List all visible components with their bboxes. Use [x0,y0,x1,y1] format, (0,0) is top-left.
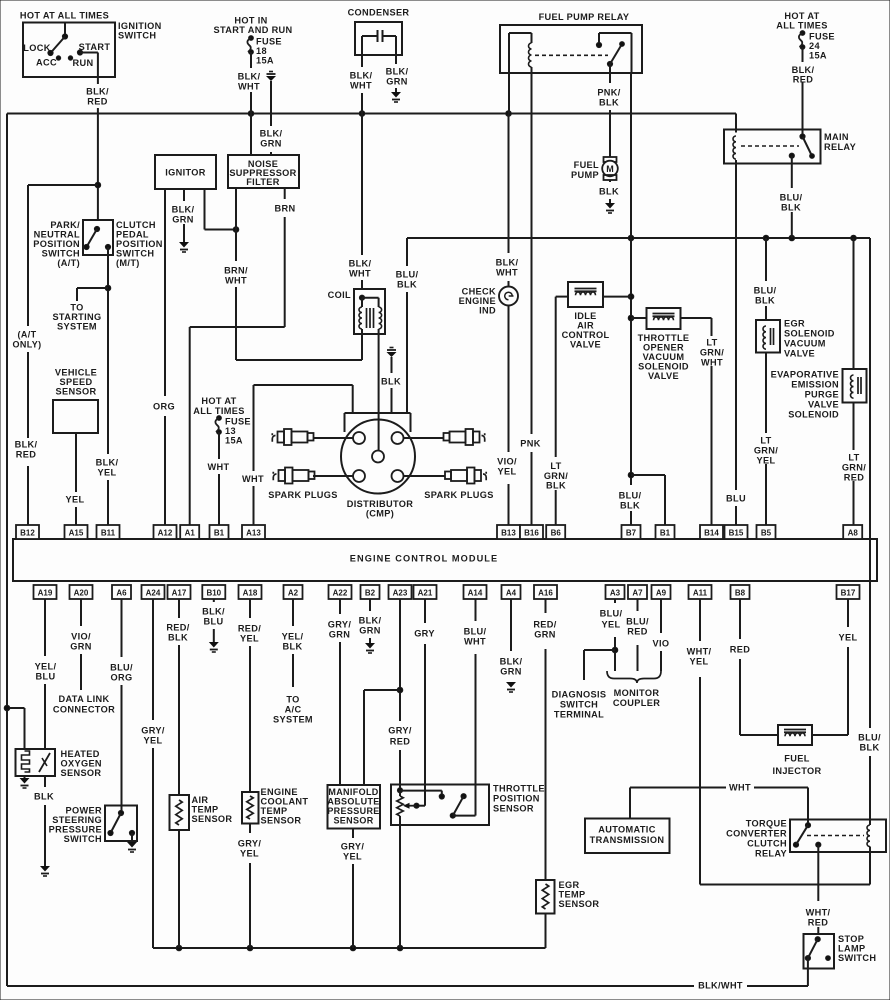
svg-text:PRESSURE: PRESSURE [327,806,379,816]
pin A1 [180,525,199,539]
svg-text:BLK/: BLK/ [359,615,382,625]
sensor: air temp sensor (thermistor) [170,795,190,830]
svg-text:NEUTRAL: NEUTRAL [34,229,80,239]
pin B2 [361,585,380,599]
svg-text:GRN: GRN [534,629,555,639]
ground: ignitor ground [179,242,189,248]
svg-text:BLK: BLK [755,295,775,305]
TCC relay dashed link [807,835,864,837]
wire: BRN/WHT from filter to ignition coil [235,188,237,261]
pin A24 [142,585,165,599]
svg-text:FUEL: FUEL [784,753,809,763]
svg-text:SWITCH: SWITCH [64,834,102,844]
wire: BLK/RED branch (A/T only) to B12 [28,184,98,186]
node: B1 branch junction [628,472,634,478]
wire: left frame BLK/WHT vertical [6,114,8,987]
wire: plug wires from distributor [314,437,353,439]
svg-text:GRN: GRN [386,76,407,86]
node: BRN/WHT junction [233,227,239,233]
svg-text:PUMP: PUMP [571,170,599,180]
pin A8 [843,525,862,539]
svg-text:SENSOR: SENSOR [493,803,534,813]
svg-text:BLU/: BLU/ [619,490,642,500]
svg-text:TO: TO [70,302,83,312]
wire: PNK from relay coil to B16 [531,73,533,434]
svg-text:PARK/: PARK/ [50,220,80,230]
svg-text:BRN/: BRN/ [224,265,248,275]
svg-text:IGNITION: IGNITION [118,21,162,31]
svg-text:RED/: RED/ [166,622,189,632]
svg-text:ENGINE: ENGINE [459,296,496,306]
pin A11 [689,585,712,599]
svg-text:RED: RED [627,626,647,636]
svg-text:GRN/: GRN/ [842,462,866,472]
sensor: throttle position sensor box [391,785,489,826]
svg-text:POSITION: POSITION [493,793,540,803]
wire: purge valve solenoid feed from bus [853,238,855,369]
sensor: heated oxygen sensor [16,749,56,776]
junction dots on top bus [248,111,254,117]
svg-text:B12: B12 [20,529,35,538]
svg-text:THROTTLE: THROTTLE [493,783,545,793]
wire: coil primary to BRN/WHT [361,329,363,360]
solenoid: fuel injector [778,725,812,745]
svg-text:BLK: BLK [168,632,188,642]
svg-text:FUSE: FUSE [225,416,251,426]
svg-text:B2: B2 [365,589,376,598]
svg-text:MANIFOLD: MANIFOLD [328,787,378,797]
svg-text:GRY/: GRY/ [328,619,352,629]
svg-text:13: 13 [225,426,236,436]
svg-text:YEL/: YEL/ [35,661,57,671]
pin A7 [628,585,647,599]
svg-text:B15: B15 [729,529,744,538]
pin B17 [837,585,860,599]
svg-text:YEL: YEL [240,848,259,858]
svg-text:BLK/: BLK/ [350,70,373,80]
svg-text:ORG: ORG [111,672,133,682]
svg-text:BLU/: BLU/ [464,626,487,636]
svg-text:SWITCH: SWITCH [42,248,80,258]
svg-text:LT: LT [706,337,717,347]
svg-text:TEMP: TEMP [192,804,219,814]
wire: YEL from B17 to fuel injector [847,599,849,627]
svg-text:ALL TIMES: ALL TIMES [776,20,827,30]
TCC relay coil [867,825,870,847]
svg-text:SWITCH: SWITCH [116,248,154,258]
ground: B10 ground [209,642,219,648]
svg-text:FUSE: FUSE [256,36,282,46]
svg-text:WHT/: WHT/ [687,646,712,656]
ignitor box U1 [155,155,216,189]
svg-text:GRN: GRN [329,629,350,639]
svg-text:SENSOR: SENSOR [559,899,600,909]
svg-text:A23: A23 [393,589,408,598]
pin A17 [168,585,191,599]
svg-text:A24: A24 [146,589,161,598]
sensor: EGR temp sensor (thermistor) [536,880,555,914]
node: A23 branch to MAP [397,687,403,693]
svg-text:THROTTLE: THROTTLE [638,333,690,343]
wire: WHT from fuse 13 to B1 [218,432,220,459]
svg-text:RED: RED [808,917,828,927]
solenoid: evaporative emission purge valve solenoid [843,369,867,403]
wire: heater supply from left frame [7,707,25,709]
svg-text:GRN: GRN [172,214,193,224]
svg-text:VEHICLE: VEHICLE [55,367,97,377]
pin B11 [97,525,120,539]
pin A18 [239,585,262,599]
wire: BLU/BLK main relay output to bus [791,156,793,188]
svg-text:A4: A4 [506,589,517,598]
pin A16 [534,585,557,599]
svg-text:WHT: WHT [242,474,264,484]
svg-text:YEL: YEL [690,656,709,666]
svg-text:OXYGEN: OXYGEN [61,758,102,768]
svg-text:BLK: BLK [599,186,619,196]
TPS internals [397,788,402,793]
wire: branch A23 to MAP sensor [364,689,400,691]
svg-text:GRY/: GRY/ [341,841,365,851]
svg-text:RED/: RED/ [533,619,556,629]
svg-text:BLU: BLU [204,616,224,626]
spark plug top-left [272,433,275,442]
svg-text:BLK: BLK [546,480,566,490]
spark plug top-right [444,433,450,441]
svg-text:ENGINE: ENGINE [261,787,298,797]
svg-text:BLK/: BLK/ [792,65,815,75]
wire: BLU/BLK from bus to distributor [406,238,408,266]
wire: throttle opener left to junction [631,317,647,319]
svg-text:B1: B1 [214,529,225,538]
svg-text:15A: 15A [256,55,274,65]
ground: fuel pump ground [605,203,615,209]
wire: GRY from A21 to TPS wiper [424,599,426,623]
svg-text:AIR: AIR [577,320,594,330]
svg-text:B10: B10 [206,589,221,598]
ignition switch box [23,23,115,78]
pin A20 [70,585,93,599]
svg-text:ABSOLUTE: ABSOLUTE [327,796,379,806]
wire: ORG from ignitor to A12 [164,189,166,396]
node: BLK/RED junction to A/T branch [95,182,101,188]
svg-text:WHT: WHT [238,81,260,91]
wire: ignitor to BRN/WHT junction [204,189,206,230]
wire: BLU/ORG from A6 to power steering pressure switch [121,599,123,657]
wire: stub TO STARTING SYSTEM [77,287,108,289]
svg-text:CONVERTER: CONVERTER [726,828,787,838]
svg-text:VIO/: VIO/ [497,456,517,466]
svg-text:GRN/: GRN/ [754,445,778,455]
wire: YEL/BLK from A2 to A/C system [292,599,294,626]
svg-text:VALVE: VALVE [784,348,815,358]
svg-text:24: 24 [809,41,820,51]
svg-text:YEL: YEL [602,619,621,629]
svg-text:FUEL PUMP RELAY: FUEL PUMP RELAY [539,12,630,22]
svg-text:HOT AT: HOT AT [201,396,236,406]
pin B1 [210,525,229,539]
svg-text:GRY/: GRY/ [388,725,412,735]
wire: BLK/BLU from B10 to ground [213,599,215,602]
svg-text:PNK: PNK [520,438,540,448]
svg-text:BLU: BLU [726,493,746,503]
svg-text:B14: B14 [704,529,719,538]
svg-text:VALVE: VALVE [808,399,839,409]
svg-text:B17: B17 [841,589,856,598]
pin A22 [329,585,352,599]
fuel pump relay dashed link [535,54,608,56]
pin B10 [202,585,225,599]
svg-text:WHT: WHT [350,80,372,90]
engine control module box [13,539,877,581]
svg-text:EMISSION: EMISSION [791,379,839,389]
svg-text:TORQUE: TORQUE [746,818,787,828]
svg-text:POSITION: POSITION [33,239,80,249]
pin B6 [546,525,565,539]
distributor cap circle [341,420,415,494]
wire: MAP sensor output GRY/YEL to bus [352,829,354,839]
fuel pump relay switch [598,33,600,45]
svg-text:TEMP: TEMP [559,889,586,899]
pin B14 [700,525,723,539]
junction dots on sensor bus [176,945,182,951]
svg-text:GRN: GRN [70,641,91,651]
wire: BLK/GRN to noise suppressor filter [270,81,272,126]
svg-text:A21: A21 [418,589,433,598]
svg-text:SWITCH: SWITCH [118,30,156,40]
svg-text:FILTER: FILTER [246,177,280,187]
svg-text:DATA LINK: DATA LINK [59,694,110,704]
wire: BLK/GRN from A4 to ground [510,599,512,651]
sensor: engine coolant temp sensor (thermistor) [242,792,259,824]
svg-text:COIL: COIL [328,290,351,300]
svg-text:SENSOR: SENSOR [61,768,102,778]
solenoid: EGR solenoid vacuum valve [756,320,780,353]
pin A19 [34,585,57,599]
svg-text:A13: A13 [246,529,261,538]
pin B12 [16,525,39,539]
svg-text:A7: A7 [632,589,643,598]
svg-text:SENSOR: SENSOR [261,815,302,825]
wire: WHT/YEL from A11 to TCC relay coil [699,599,701,641]
svg-text:RED: RED [730,644,750,654]
svg-text:AUTOMATIC: AUTOMATIC [598,824,655,834]
pin A21 [414,585,437,599]
pin A6 [112,585,131,599]
coil internals [359,295,364,300]
svg-text:TEMP: TEMP [261,806,288,816]
wire: fuel pump BLK to ground [609,180,611,182]
wire: BLU/BLK right side from bus to torque converter clutch relay [869,238,871,728]
svg-text:A19: A19 [38,589,53,598]
svg-text:LT: LT [848,452,859,462]
wire: branch to diagnosis switch terminal [584,649,615,651]
svg-text:ACC: ACC [36,57,57,67]
svg-text:A8: A8 [848,529,859,538]
svg-text:(A/T): (A/T) [57,258,80,268]
svg-text:START: START [79,42,111,52]
svg-text:LOCK: LOCK [23,43,50,53]
svg-text:BLK: BLK [283,641,303,651]
distributor housing [345,412,411,414]
switch: power steering pressure switch [105,806,137,842]
ground: B2 ground [365,643,375,649]
pin B15 [725,525,748,539]
svg-text:YEL: YEL [498,466,517,476]
svg-text:BLK: BLK [599,97,619,107]
svg-text:EGR: EGR [784,318,805,328]
wire: LT GRN/YEL from EGR valve to B5 [765,353,767,434]
svg-text:RUN: RUN [73,58,94,68]
svg-text:A11: A11 [693,589,708,598]
switch: stop lamp switch [804,934,835,969]
svg-text:STOP: STOP [838,934,864,944]
monitor coupler brace [607,671,661,683]
main relay dashed link [741,145,799,147]
svg-text:IND: IND [479,305,496,315]
svg-text:SENSOR: SENSOR [333,815,373,825]
svg-text:PRESSURE: PRESSURE [49,824,102,834]
switch: park/neutral position switch box [83,220,113,255]
ground: oxygen sensor heater ground [24,776,26,778]
svg-text:WHT: WHT [729,782,751,792]
ignition switch internals [64,23,66,37]
svg-text:HOT AT: HOT AT [784,11,819,21]
svg-text:PURGE: PURGE [805,389,839,399]
pin A4 [502,585,521,599]
wire: condenser BLK/WHT down through bus to coil [361,36,363,67]
svg-text:SOLENOID: SOLENOID [788,409,839,419]
wire: BLU/RED from A7 to monitor coupler [637,599,639,611]
wire: GRY/YEL from A24 to sensor bus [152,599,154,720]
pin A3 [606,585,625,599]
svg-text:15A: 15A [225,435,243,445]
wire: condenser BLK/GRN to ground [395,36,397,64]
svg-text:SPEED: SPEED [60,377,93,387]
wire: air temp sensor to bus [178,830,180,948]
wire: IACV right to junction [603,296,631,298]
svg-text:GRN: GRN [260,138,281,148]
svg-text:BLK/: BLK/ [86,86,109,96]
svg-text:YEL: YEL [144,735,163,745]
svg-text:CLUTCH: CLUTCH [116,220,156,230]
pin A12 [154,525,177,539]
svg-text:EVAPORATIVE: EVAPORATIVE [771,369,839,379]
pin A15 [65,525,88,539]
svg-text:B7: B7 [626,529,637,538]
svg-text:CLUTCH: CLUTCH [747,838,787,848]
wire: relay coil left leg to bus [508,73,510,114]
wire: RED from B8 to fuel injector [739,599,741,639]
wire: EGR temp sensor to sensor bus [545,914,547,949]
svg-text:BLU/: BLU/ [396,269,419,279]
wire: VIO/GRN from A20 to data link connector [80,599,82,626]
wire: BLU/BLK from bus to EGR solenoid vacuum valve [765,238,767,281]
wire: BLK/WHT bus from fuse 18 (top horizontal bus) [7,113,736,115]
ground: power steering switch ground [131,833,133,842]
park/neutral switch internals [94,226,99,231]
node: throttle opener junction [628,315,634,321]
svg-text:STEERING: STEERING [52,815,102,825]
relay: main relay box [724,130,821,164]
svg-text:B11: B11 [101,529,116,538]
svg-text:GRN: GRN [359,625,380,635]
svg-text:SWITCH: SWITCH [838,953,876,963]
wire: BLK/WHT from bus to check engine lamp, VIO/YEL to B13 [508,114,510,254]
wire: BLU/WHT from A14 to TPS [475,599,477,621]
wire: VIO from A9 to monitor coupler [660,599,662,633]
svg-text:BLK: BLK [34,791,54,801]
svg-text:FUSE: FUSE [809,31,835,41]
junction dots on BLU/BLK bus [628,235,634,241]
svg-text:B1: B1 [660,529,671,538]
svg-text:(M/T): (M/T) [116,258,140,268]
svg-text:BLK/: BLK/ [386,66,409,76]
svg-text:RED: RED [844,472,864,482]
svg-text:RELAY: RELAY [755,848,787,858]
svg-text:BRN: BRN [275,203,296,213]
svg-text:A20: A20 [74,589,89,598]
svg-text:A3: A3 [610,589,621,598]
svg-text:ENGINE CONTROL MODULE: ENGINE CONTROL MODULE [350,553,499,563]
svg-text:YEL: YEL [343,851,362,861]
svg-text:BLK/: BLK/ [349,258,372,268]
svg-text:WHT: WHT [208,462,230,472]
svg-text:PNK/: PNK/ [597,87,620,97]
svg-text:WHT: WHT [496,267,518,277]
svg-text:RED: RED [793,74,813,84]
wire: BLU/BLK bus from main relay (second horizontal bus) [407,237,870,239]
svg-text:VACUUM: VACUUM [784,338,826,348]
pin A9 [652,585,671,599]
svg-text:YEL: YEL [839,632,858,642]
pin B5 [757,525,776,539]
svg-text:CONNECTOR: CONNECTOR [53,704,115,714]
wire: YEL/BLU from A19 to heated oxygen sensor [44,599,46,656]
svg-text:BLK/: BLK/ [496,257,519,267]
svg-text:INJECTOR: INJECTOR [772,766,821,776]
svg-text:WHT: WHT [349,268,371,278]
ground: condenser ground [391,92,401,98]
svg-text:BLU/: BLU/ [600,608,623,618]
svg-text:RELAY: RELAY [824,142,856,152]
ignition coil box [354,289,385,334]
pin B16 [520,525,543,539]
wire: GRY/GRN from A22 to MAP sensor [339,599,341,614]
svg-text:A16: A16 [538,589,553,598]
wire: sensor ground bus at bottom [153,947,546,949]
svg-text:SYSTEM: SYSTEM [273,714,313,724]
svg-text:VALVE: VALVE [648,371,679,381]
svg-text:B6: B6 [551,529,562,538]
wire: relay switch leg down to BLU/BLK bus and B7 [630,73,632,485]
wire: switch output BLK/YEL to B11 [107,247,109,454]
node: frame junction [4,705,10,711]
svg-text:TRANSMISSION: TRANSMISSION [590,835,665,845]
svg-text:HEATED: HEATED [61,749,100,759]
svg-text:B5: B5 [761,529,772,538]
svg-text:AIR: AIR [192,795,209,805]
svg-text:(A/T: (A/T [18,329,37,339]
pin A13 [242,525,265,539]
svg-text:MONITOR: MONITOR [614,688,660,698]
wire: BLU/YEL from A3 to monitor coupler [614,599,616,603]
wire: BLK from oxygen sensor to ground [44,776,46,787]
svg-text:18: 18 [256,46,267,56]
svg-text:SPARK PLUGS: SPARK PLUGS [268,490,338,500]
ground: A4 ground [506,682,516,688]
svg-text:SWITCH: SWITCH [560,699,598,709]
